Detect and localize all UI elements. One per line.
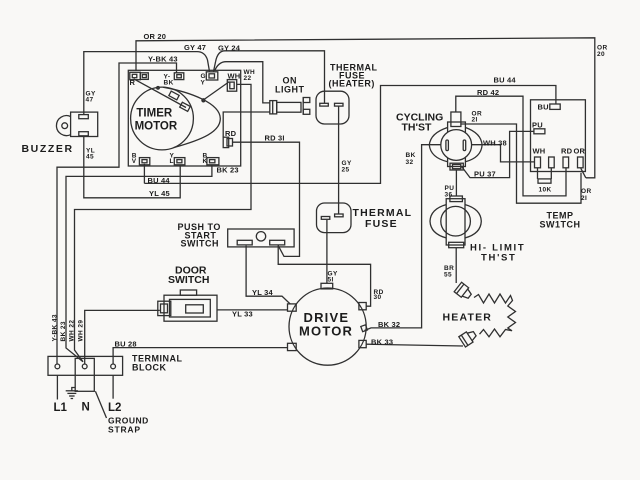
- svg-text:45: 45: [86, 153, 94, 160]
- svg-text:BK 23: BK 23: [217, 166, 239, 175]
- svg-text:TIMER: TIMER: [136, 107, 172, 119]
- svg-text:47: 47: [86, 96, 94, 103]
- svg-text:RD: RD: [561, 147, 573, 156]
- svg-text:10K: 10K: [539, 187, 552, 194]
- svg-text:RD: RD: [225, 129, 237, 138]
- svg-text:30: 30: [374, 294, 382, 301]
- svg-text:PU: PU: [532, 121, 543, 130]
- svg-text:Y-BK 43: Y-BK 43: [52, 314, 59, 341]
- svg-text:2I: 2I: [472, 117, 478, 124]
- svg-text:FUSE: FUSE: [365, 218, 398, 230]
- svg-text:BLOCK: BLOCK: [132, 363, 167, 373]
- svg-text:20: 20: [597, 51, 605, 58]
- svg-text:L1: L1: [54, 402, 68, 414]
- svg-text:BU 44: BU 44: [494, 76, 517, 85]
- svg-text:YL 33: YL 33: [232, 310, 253, 319]
- svg-text:25: 25: [342, 166, 350, 173]
- svg-text:STRAP: STRAP: [108, 425, 141, 435]
- svg-text:BU: BU: [538, 103, 549, 112]
- svg-text:WH: WH: [533, 147, 546, 156]
- svg-text:5I: 5I: [328, 276, 334, 283]
- svg-text:GY 24: GY 24: [218, 44, 241, 53]
- svg-text:GY 47: GY 47: [184, 43, 206, 52]
- svg-text:55: 55: [444, 272, 452, 279]
- svg-text:Y: Y: [201, 79, 206, 86]
- svg-text:WH: WH: [228, 72, 241, 81]
- svg-text:WH 29: WH 29: [78, 320, 85, 342]
- svg-text:32: 32: [406, 159, 414, 166]
- svg-text:MOTOR: MOTOR: [135, 120, 178, 132]
- svg-text:SW1TCH: SW1TCH: [540, 220, 581, 230]
- svg-text:RD 42: RD 42: [477, 88, 499, 97]
- svg-text:V: V: [132, 158, 137, 165]
- svg-text:L: L: [170, 158, 174, 165]
- svg-text:BU 44: BU 44: [148, 176, 171, 185]
- svg-text:LIGHT: LIGHT: [275, 85, 305, 95]
- svg-text:BUZZER: BUZZER: [22, 143, 74, 155]
- svg-text:MOTOR: MOTOR: [299, 324, 353, 339]
- svg-text:BK 32: BK 32: [378, 320, 400, 329]
- svg-text:SWITCH: SWITCH: [181, 239, 220, 249]
- svg-text:RD 3I: RD 3I: [265, 134, 285, 143]
- svg-text:(HEATER): (HEATER): [329, 79, 375, 89]
- svg-text:BK 23: BK 23: [60, 321, 67, 341]
- svg-text:36: 36: [445, 192, 453, 199]
- svg-text:N: N: [82, 402, 90, 414]
- svg-text:BU 28: BU 28: [115, 340, 137, 349]
- svg-text:L2: L2: [108, 402, 121, 414]
- svg-text:TH'ST: TH'ST: [481, 253, 517, 264]
- svg-text:BK 33: BK 33: [371, 338, 393, 347]
- svg-text:Y-BK 43: Y-BK 43: [148, 54, 178, 63]
- svg-text:R: R: [130, 78, 136, 87]
- svg-text:OR 20: OR 20: [144, 32, 167, 41]
- svg-text:22: 22: [244, 75, 252, 82]
- svg-text:HEATER: HEATER: [443, 312, 493, 324]
- svg-text:OR: OR: [574, 147, 586, 156]
- svg-text:TH'ST: TH'ST: [402, 122, 432, 134]
- svg-text:PU 37: PU 37: [474, 170, 496, 179]
- svg-text:WH 22: WH 22: [69, 320, 76, 342]
- svg-text:YL 34: YL 34: [252, 288, 274, 297]
- svg-text:WH 38: WH 38: [483, 139, 507, 148]
- svg-text:K: K: [203, 158, 208, 165]
- svg-text:SWITCH: SWITCH: [168, 274, 209, 286]
- svg-text:YL 45: YL 45: [149, 189, 170, 198]
- svg-text:2I: 2I: [581, 195, 587, 202]
- svg-text:BK: BK: [406, 152, 416, 159]
- svg-text:BK: BK: [164, 80, 174, 87]
